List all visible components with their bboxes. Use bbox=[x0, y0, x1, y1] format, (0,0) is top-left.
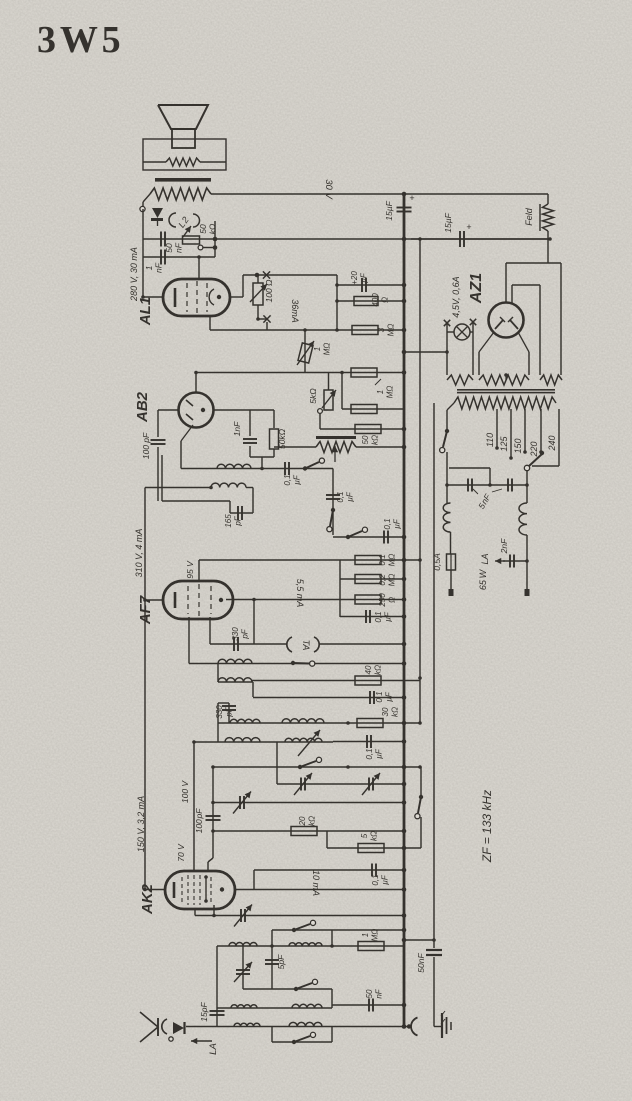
label 5 kOhm ak2 bbox=[360, 831, 379, 841]
wire 165pF loop bbox=[162, 455, 253, 513]
svg-text:0,1µF: 0,1µF bbox=[283, 474, 302, 485]
resistor 5 kOhm ak2 bbox=[327, 831, 421, 853]
label 2nF mains bbox=[499, 538, 509, 554]
resistor 20 kOhm bbox=[291, 827, 317, 836]
label ZF 133 kHz bbox=[480, 790, 494, 863]
wire selector down bbox=[526, 470, 528, 485]
potentiometer 50k tone bbox=[183, 226, 216, 250]
wire grid line y257 bbox=[143, 256, 215, 258]
label 15uF second bbox=[443, 212, 472, 232]
lamp 4,5V bbox=[454, 324, 470, 340]
label 0,1uF ladder bbox=[336, 491, 355, 502]
label 330 pF af7 bbox=[231, 627, 250, 641]
volume pot winding bbox=[274, 442, 404, 453]
plug LA bbox=[169, 1022, 185, 1041]
speaker tap terminal bbox=[140, 206, 145, 211]
jack chassis arc bbox=[407, 1018, 418, 1036]
wire y989 band sw2 bbox=[243, 989, 332, 1008]
capacitor 50nF grid bbox=[161, 232, 165, 247]
bus mains ground bbox=[433, 403, 435, 1027]
potentiometer 1 MOhm bbox=[297, 330, 314, 372]
label 1 MOhm pair bbox=[375, 379, 395, 398]
svg-text:50nF: 50nF bbox=[164, 242, 184, 253]
label 310 V, 4 mA bbox=[134, 529, 144, 578]
output transformer primary winding bbox=[150, 188, 211, 200]
svg-text:50nF: 50nF bbox=[416, 953, 426, 973]
svg-text:0,1µF: 0,1µF bbox=[371, 874, 390, 885]
wire y803 osc bbox=[211, 801, 404, 805]
svg-text:4,5V, 0,6A: 4,5V, 0,6A bbox=[451, 276, 461, 317]
tap 110 bbox=[485, 409, 499, 450]
AF7 grid top lead bbox=[198, 560, 200, 581]
svg-text:AZ1: AZ1 bbox=[468, 273, 485, 304]
label 1 nF bbox=[144, 262, 164, 273]
AF7 bottom lead a bbox=[209, 617, 211, 644]
wire fuse down bbox=[450, 570, 452, 591]
svg-text:36mA: 36mA bbox=[290, 299, 300, 323]
svg-text:+: + bbox=[409, 193, 414, 203]
svg-text:100 pF: 100 pF bbox=[194, 808, 204, 834]
AK2 cathode bar bbox=[173, 882, 176, 898]
bus HT dist bbox=[418, 237, 422, 769]
capacitor 15uF second bbox=[460, 231, 464, 247]
AF7 anode bbox=[219, 598, 223, 602]
capacitor 0,1uF y697 bbox=[253, 691, 404, 704]
wire anode branch down bbox=[252, 598, 256, 644]
tube AB2 envelope bbox=[179, 393, 214, 428]
label 0,1 MOhm bbox=[378, 554, 397, 567]
svg-text:LA: LA bbox=[208, 1043, 219, 1055]
AK2 grid dashes bbox=[182, 875, 211, 905]
antenna symbol bbox=[140, 1012, 158, 1042]
label AF7 bbox=[137, 595, 154, 625]
label 3 MOhm bbox=[377, 324, 396, 337]
wire screen feed y560 bbox=[199, 559, 420, 561]
svg-text:125: 125 bbox=[499, 436, 509, 452]
trimmer cap T3 bbox=[233, 792, 251, 814]
coil ant c bbox=[234, 1023, 260, 1026]
capacitor 0,1uF y537 bbox=[384, 531, 388, 544]
tube AF7 envelope bbox=[163, 581, 233, 619]
capacitor 5nF b bbox=[508, 479, 512, 492]
capacitor 330 pF bf bbox=[222, 703, 236, 723]
speaker magnet box bbox=[143, 139, 226, 170]
AF7 bottom lead b bbox=[188, 617, 190, 664]
label 50 kOhm tone bbox=[198, 223, 218, 234]
capacitor 20uF cathode bbox=[337, 278, 404, 292]
AL1 grid dashes bbox=[187, 281, 207, 314]
wire y1027 ant row2 bbox=[186, 1026, 410, 1028]
svg-text:Feld: Feld bbox=[524, 207, 534, 226]
coil IF3a bbox=[218, 659, 252, 663]
label 30 kOhm bbox=[381, 707, 400, 717]
svg-text:110: 110 bbox=[485, 433, 495, 447]
label 5,5 mA bbox=[295, 579, 305, 608]
wire anode to speaker X bbox=[243, 273, 337, 278]
label 330 pF bf bbox=[215, 705, 234, 719]
label 400 Ohm bbox=[371, 293, 390, 307]
label 0,1uF det bbox=[283, 474, 302, 485]
label 100pF bbox=[141, 432, 151, 459]
label LA antenna bbox=[208, 1043, 219, 1055]
output transformer core bbox=[155, 178, 211, 182]
AF7 anode lead bbox=[226, 599, 404, 601]
tap 220 bbox=[529, 409, 543, 458]
capacitor 50nF mains bbox=[426, 950, 442, 955]
AK2 anode bbox=[220, 887, 224, 891]
AB2 right lead bbox=[214, 409, 275, 411]
resistor 50kOhm det bbox=[270, 410, 279, 457]
arrow LA bbox=[191, 1038, 212, 1044]
wire bf row2 bbox=[194, 741, 333, 743]
fuse 0,5A bbox=[447, 554, 456, 570]
label 4,5V 0,6A bbox=[451, 276, 461, 317]
AL1 cathode bar bbox=[174, 288, 177, 307]
resistor 50 kOhm bbox=[355, 425, 381, 434]
wire trimmer row y784 bbox=[277, 742, 404, 784]
x mark lamp left bbox=[444, 320, 450, 326]
AF7 cathode bar bbox=[174, 592, 177, 608]
label 1 MOhm osc bbox=[361, 929, 380, 942]
svg-text:AL1: AL1 bbox=[137, 297, 154, 326]
AZ1 top lead bbox=[505, 263, 507, 303]
label 95 V bbox=[185, 560, 195, 579]
resistor 0,2 MOhm bbox=[355, 575, 381, 584]
wire lamp to bus bbox=[402, 350, 449, 355]
AL1 anode bbox=[209, 289, 221, 305]
label AL1 bbox=[137, 297, 154, 326]
svg-text:+: + bbox=[466, 222, 471, 232]
tube AL1 envelope bbox=[163, 279, 230, 316]
AK2 cathode lead bbox=[143, 888, 165, 892]
AL1 anode lead bbox=[230, 275, 243, 297]
svg-text:50kΩ: 50kΩ bbox=[361, 435, 380, 445]
pot 100 lead bottom bbox=[256, 305, 260, 321]
tube AK2 envelope bbox=[165, 871, 235, 909]
svg-text:10 mA: 10 mA bbox=[311, 870, 321, 896]
potentiometer 5 kOhm bbox=[318, 373, 336, 414]
coil IF1a bbox=[230, 719, 260, 723]
svg-text:100 pF: 100 pF bbox=[141, 432, 151, 459]
svg-text:15µF: 15µF bbox=[443, 212, 453, 232]
label 36mA bbox=[290, 299, 300, 323]
capacitor 330 pF af7 bbox=[234, 637, 238, 651]
trimmer osc bbox=[234, 946, 252, 989]
label 0,1uF y870 bbox=[371, 874, 390, 885]
coil ant b bbox=[292, 1004, 322, 1008]
label 1 MOhm pot bbox=[313, 343, 332, 356]
svg-text:240: 240 bbox=[547, 435, 557, 451]
resistor 400 Ohm bbox=[337, 297, 404, 306]
wire B+ top line bbox=[211, 193, 548, 195]
pot 100 lead top bbox=[257, 275, 259, 283]
wire y831 20k bbox=[211, 829, 404, 833]
svg-text:280 V, 30 mA: 280 V, 30 mA bbox=[129, 247, 139, 302]
label 50nF mains bbox=[416, 953, 426, 973]
capacitor 15pF bbox=[210, 946, 225, 1027]
wire grid3 drop bbox=[208, 831, 213, 871]
wire cathode vertical bbox=[335, 275, 339, 330]
wire divider link bbox=[341, 373, 343, 410]
svg-text:1nF: 1nF bbox=[232, 421, 242, 436]
speaker plug clip bbox=[151, 208, 163, 226]
title 3W5 bbox=[37, 19, 120, 61]
AL1 cathode lead left bbox=[141, 295, 163, 299]
arrow LA mains bbox=[495, 558, 505, 564]
label 0,5A bbox=[432, 553, 442, 571]
tap 240 bbox=[532, 409, 559, 466]
svg-text:65 W: 65 W bbox=[478, 568, 488, 590]
choke right bbox=[519, 485, 527, 591]
wire screen branch bbox=[253, 870, 255, 890]
label 5pF bbox=[276, 954, 286, 969]
label 100pF ak2 bbox=[194, 808, 204, 834]
svg-text:0,1µF: 0,1µF bbox=[365, 748, 384, 759]
capacitor 1nF grid bbox=[161, 250, 165, 265]
label 50 nF ant bbox=[365, 988, 384, 998]
svg-text:150 V, 3,2 mA: 150 V, 3,2 mA bbox=[136, 796, 146, 852]
wire y767 switch feed bbox=[211, 765, 421, 769]
tap 125 bbox=[499, 409, 513, 460]
label 30 V bbox=[323, 179, 334, 200]
jack TA arcs bbox=[287, 637, 319, 652]
label +20 uF bbox=[350, 271, 369, 285]
mains terminal right bbox=[525, 589, 530, 596]
coil osc b bbox=[289, 943, 322, 946]
label 100 V ak2 bbox=[180, 780, 190, 804]
wire y537 to bus bbox=[333, 536, 404, 538]
label 0,2 MOhm bbox=[378, 574, 397, 587]
switch band S7 bbox=[294, 979, 318, 991]
label AK2 bbox=[139, 883, 156, 915]
wire bus stub y940 bbox=[404, 938, 436, 942]
wire switch ladder bbox=[332, 469, 334, 536]
coil ant a bbox=[231, 1005, 257, 1008]
AZ1 inner loop bbox=[512, 285, 540, 375]
label 50 kOhm ladder bbox=[361, 435, 380, 445]
switch HV S5 bbox=[415, 767, 423, 848]
capacitor 5nF a bbox=[468, 479, 472, 492]
svg-text:AB2: AB2 bbox=[134, 391, 151, 423]
coil IF1b bbox=[282, 719, 324, 723]
svg-text:0,1µF: 0,1µF bbox=[374, 611, 393, 622]
switch TA bbox=[291, 661, 315, 666]
svg-text:95 V: 95 V bbox=[185, 560, 195, 579]
wire AL1 grid drop bbox=[197, 255, 201, 279]
svg-text:TA: TA bbox=[301, 640, 311, 651]
svg-text:20kΩ: 20kΩ bbox=[298, 816, 317, 827]
trimmer arrow bf bbox=[298, 730, 320, 756]
wire Feld to AZ1 loop bbox=[506, 239, 561, 375]
wire coil B2 row bbox=[218, 664, 253, 683]
trimmer cap T2 bbox=[362, 773, 380, 795]
svg-text:100 Ω: 100 Ω bbox=[264, 279, 274, 303]
svg-text:0,1MΩ: 0,1MΩ bbox=[378, 554, 397, 567]
wire AVC line y372 bbox=[196, 371, 404, 375]
svg-text:50kΩ: 50kΩ bbox=[277, 428, 287, 449]
AB2 bottom lead bbox=[181, 425, 193, 469]
resistor 250 Ohm bbox=[355, 595, 381, 604]
jack antenna arc bbox=[162, 1019, 167, 1034]
wire pot bottom to cathode net bbox=[258, 318, 267, 320]
svg-text:LA: LA bbox=[480, 553, 490, 564]
switch band S8 bbox=[292, 1032, 316, 1044]
capacitor 100pF bbox=[151, 410, 166, 501]
resistor 1 MOhm upper bbox=[351, 368, 377, 377]
label 0,1uF y537 bbox=[383, 518, 402, 529]
wire IF2b right bbox=[246, 488, 253, 514]
capacitor 100pF ak2 bbox=[206, 767, 221, 831]
switch band S6 bbox=[292, 920, 316, 932]
label 5nF bbox=[473, 489, 502, 511]
capacitor 0,1uF y870 bbox=[254, 864, 404, 877]
AK2 grid rod bbox=[204, 875, 208, 903]
label 15uF bus bbox=[384, 193, 415, 221]
choke left bbox=[443, 485, 450, 554]
coil ant d bbox=[289, 1022, 322, 1026]
label 20 kOhm bbox=[298, 816, 317, 827]
svg-text:150: 150 bbox=[513, 438, 523, 453]
label 150 V, 3,2 mA bbox=[136, 796, 146, 852]
label 50kOhm det bbox=[277, 428, 287, 449]
switch bf bbox=[298, 757, 322, 769]
coil osc a bbox=[229, 943, 257, 946]
svg-text:30 V: 30 V bbox=[323, 179, 334, 200]
resistor 1 MOhm osc bbox=[358, 942, 384, 951]
AF7 grid dashes bbox=[188, 584, 211, 616]
label TA bbox=[301, 640, 311, 651]
wire y946 osc row bbox=[217, 944, 404, 948]
svg-text:5,5 mA: 5,5 mA bbox=[295, 579, 305, 608]
wire det bottom bbox=[250, 457, 274, 470]
wire y930 band sw1 bbox=[272, 930, 404, 946]
svg-text:5kΩ: 5kΩ bbox=[308, 388, 318, 404]
label 10 mA bbox=[311, 870, 321, 896]
label LA mains bbox=[480, 553, 490, 564]
capacitor 0,1uF y616 bbox=[340, 610, 404, 623]
label 0,1uF y741 bbox=[365, 748, 384, 759]
wire 5nF row bbox=[445, 483, 529, 487]
label 1nF det bbox=[232, 421, 242, 436]
svg-text:AK2: AK2 bbox=[139, 883, 156, 915]
svg-text:40kΩ: 40kΩ bbox=[364, 665, 383, 675]
svg-text:5pF: 5pF bbox=[276, 954, 286, 969]
capacitor 15uF bus bbox=[397, 208, 412, 212]
resistor 0,1 MOhm bbox=[355, 556, 381, 565]
wire primary left end to terminal bbox=[143, 194, 150, 209]
wire y644 TA line bbox=[210, 643, 404, 645]
svg-text:0,1µF: 0,1µF bbox=[336, 491, 355, 502]
label 15pF bbox=[199, 1002, 209, 1022]
potentiometer 100 Ohm bbox=[250, 283, 267, 305]
coil IF1c bbox=[225, 738, 260, 742]
svg-text:50nF: 50nF bbox=[365, 988, 384, 998]
svg-text:310 V, 4 mA: 310 V, 4 mA bbox=[134, 529, 144, 578]
heater winding right bbox=[540, 375, 562, 385]
coil IF2a bbox=[217, 464, 251, 468]
trimmer cap T1 bbox=[294, 773, 312, 795]
capacitor 1nF det bbox=[243, 410, 257, 457]
capacitor 165 pF bbox=[238, 506, 242, 520]
wire band sw3 loop bbox=[272, 1027, 332, 1043]
label L2 bbox=[176, 215, 190, 230]
switch det bbox=[303, 458, 325, 471]
x mark speaker bottom bbox=[263, 315, 270, 322]
wire grid4 drop bbox=[192, 740, 196, 871]
svg-text:0,2MΩ: 0,2MΩ bbox=[378, 574, 397, 587]
label 0,1uF y697 bbox=[375, 691, 394, 702]
capacitor 2nF mains bbox=[503, 555, 529, 568]
bus junction dots bbox=[402, 192, 407, 1029]
AB2 top lead bbox=[194, 371, 198, 393]
svg-text:220: 220 bbox=[529, 441, 539, 457]
capacitor 0,1uF y741 bbox=[333, 735, 404, 748]
loudspeaker cone bbox=[158, 105, 208, 148]
voice coil winding bbox=[143, 158, 226, 166]
capacitor 5pF bbox=[265, 946, 279, 989]
AK2 bottom leads bbox=[195, 905, 214, 916]
wire 5k wiper down bbox=[320, 413, 404, 429]
svg-text:100 V: 100 V bbox=[180, 780, 190, 804]
wire y1042 bbox=[272, 1041, 332, 1043]
resistor 40 kOhm bbox=[355, 676, 381, 685]
wire left rail 280V bbox=[142, 209, 144, 297]
wire y663 switch line bbox=[189, 663, 404, 665]
svg-text:0,5A: 0,5A bbox=[432, 553, 442, 571]
capacitor 0,1uF ladder bbox=[326, 495, 340, 499]
label AZ1 bbox=[468, 273, 485, 304]
AZ1 right lead bbox=[518, 332, 529, 375]
AL1 bottom lead bbox=[209, 316, 211, 330]
capacitor 50 nF ant bbox=[332, 999, 404, 1012]
wire y330 anode supply bbox=[210, 328, 404, 332]
capacitor 0,1uF det bbox=[285, 462, 289, 475]
wire y1008 ant row bbox=[217, 1007, 332, 1009]
mains switch bbox=[440, 403, 454, 485]
label 100 Ohm bbox=[264, 279, 274, 303]
resistor 3 MOhm bbox=[352, 326, 378, 335]
AZ1 left lead bbox=[479, 332, 494, 375]
AF7 cathode lead bbox=[143, 598, 163, 602]
wire y579 bbox=[340, 560, 404, 617]
wire xmark down to y330 bbox=[266, 322, 268, 330]
AB2 electrodes bbox=[186, 400, 205, 420]
label 50 nF bbox=[164, 242, 184, 253]
transformer core bars bbox=[457, 389, 555, 393]
trimmer cap T4 bbox=[234, 905, 252, 927]
switch ladder vertical bbox=[327, 508, 335, 532]
ground symbol bbox=[434, 1011, 451, 1038]
AK2 anode lead bbox=[235, 889, 404, 891]
wire y682 40k bbox=[252, 681, 420, 698]
label 65W bbox=[478, 568, 488, 590]
label 280 V, 30 mA bbox=[129, 247, 139, 302]
wire y915 osc grid bbox=[195, 914, 404, 918]
tap selector switch bbox=[524, 451, 544, 471]
svg-text:ZF = 133 kHz: ZF = 133 kHz bbox=[480, 790, 494, 863]
mains terminal left bbox=[449, 589, 454, 596]
volume pot wiper bbox=[332, 446, 338, 462]
svg-text:70 V: 70 V bbox=[176, 843, 186, 862]
svg-text:0,1µF: 0,1µF bbox=[383, 518, 402, 529]
label 250 Ohm bbox=[378, 593, 397, 608]
AB2 left lead bbox=[158, 409, 179, 411]
wire 5nF mid up bbox=[449, 468, 490, 485]
coil L2 coupling arcs bbox=[169, 213, 200, 227]
x mark speaker top bbox=[263, 271, 270, 278]
lamp wires bbox=[447, 322, 473, 375]
wire right rail of tone cluster bbox=[213, 221, 218, 257]
